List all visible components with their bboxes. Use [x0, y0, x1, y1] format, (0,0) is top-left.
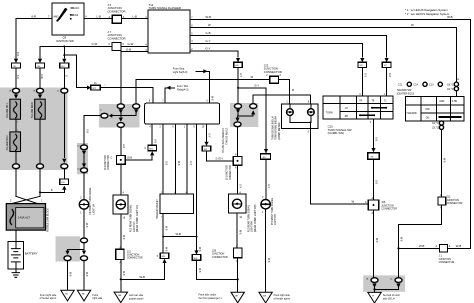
connector A turn RH in [235, 104, 242, 109]
bus wire G-B flasher pin5 [190, 35, 387, 57]
wire front RH ground [265, 209, 267, 292]
svg-text:W-B: W-B [267, 258, 269, 263]
svg-text:BP3: BP3 [162, 256, 165, 258]
from TAIL relay feed [162, 85, 189, 103]
fusible link block 140A ALT [6, 204, 49, 232]
svg-text:2: 2 [17, 122, 18, 124]
svg-text:W-B: W-B [419, 244, 425, 248]
svg-text:G-Y: G-Y [206, 47, 211, 51]
arrow 1G upper out [82, 151, 86, 155]
connector E1 turn LH in [117, 104, 124, 109]
svg-text:(TURN SIGNAL): (TURN SIGNAL) [224, 128, 227, 145]
svg-text:G-Y: G-Y [239, 184, 241, 189]
svg-text:4: 4 [185, 192, 186, 194]
connector E4 to front LH [101, 113, 108, 118]
svg-text:W-B: W-B [85, 272, 87, 277]
svg-text:(COMB. METER): (COMB. METER) [279, 122, 281, 140]
svg-text:BATTERY: BATTERY [25, 252, 38, 256]
svg-text:of fender apron: of fender apron [40, 297, 57, 300]
arrow E2 out [134, 109, 138, 113]
svg-text:CONNECTOR: CONNECTOR [447, 202, 463, 205]
ground triangle BR front passenger side [199, 292, 245, 303]
connector 1B cowl ground [366, 278, 378, 283]
svg-text:COMBINATION METER: COMBINATION METER [221, 128, 224, 153]
svg-text:Light Sw(6-3): Light Sw(6-3) [173, 71, 188, 74]
svg-text:W-B: W-B [456, 244, 462, 248]
svg-text:J5 JUNCTION: J5 JUNCTION [227, 165, 229, 180]
svg-text:1D6: 1D6 [61, 182, 64, 184]
svg-text:ACC: ACC [74, 7, 79, 10]
wire meter pin4 via BP3 to J4 [125, 124, 152, 160]
connector BP3 rear [121, 253, 169, 279]
svg-text:GND: GND [439, 101, 444, 103]
wire to ground triangles front [68, 261, 85, 291]
wire E3 down to J4 [120, 128, 122, 156]
arrow into B [251, 110, 255, 114]
svg-text:G-W: G-W [128, 42, 134, 46]
svg-text:W: W [411, 23, 414, 27]
svg-text:B-R: B-R [16, 52, 18, 56]
svg-text:7: 7 [161, 217, 162, 219]
wire W-B bus to J1 [447, 247, 470, 249]
connector BP2 [91, 85, 101, 90]
connector 1D cowl ground [390, 278, 402, 283]
svg-text:W-B: W-B [176, 232, 182, 236]
svg-text:W: W [251, 75, 254, 79]
svg-text:LIGHT LH: LIGHT LH [93, 204, 95, 215]
arrow into fuse col1 [15, 93, 17, 95]
svg-text:R11 REAR TURN SIGNAL: R11 REAR TURN SIGNAL [247, 204, 250, 232]
svg-text:BC3: BC3 [204, 149, 208, 151]
gray box ground cluster cowl side [363, 275, 405, 291]
meter pin wires to trailer socket [163, 124, 187, 194]
connector 1J fuse block top col3 [57, 88, 68, 93]
svg-text:W-B: W-B [122, 235, 124, 240]
arrow A out [236, 109, 240, 113]
svg-text:LIGHT RH: LIGHT RH [275, 214, 277, 225]
svg-text:W-B: W-B [211, 96, 213, 101]
connector arrow col1 [15, 58, 17, 60]
svg-text:S-HE: S-HE [452, 101, 458, 103]
svg-text:22( *2): 22( *2) [432, 128, 439, 130]
wire front LH ground [83, 209, 85, 246]
svg-text:G-B: G-B [388, 73, 390, 78]
svg-text:G-B: G-B [153, 139, 155, 144]
svg-text:L-B: L-B [97, 14, 101, 18]
wire J11 down to ground node [399, 205, 442, 278]
wire G-W fuse to flasher through J7 [40, 46, 148, 57]
svg-text:W-B: W-B [198, 268, 200, 273]
ground battery [12, 269, 20, 277]
gray patch junction cluster LH [99, 104, 140, 128]
junction connector J11 [438, 194, 463, 209]
svg-text:50A AM2 MAIN: 50A AM2 MAIN [31, 102, 34, 118]
svg-text:W-B: W-B [375, 238, 377, 243]
connector E3 to rear LH [117, 123, 124, 128]
svg-text:10( *1): 10( *1) [432, 123, 439, 125]
svg-text:CONNECTOR: CONNECTOR [230, 165, 232, 180]
svg-text:G-Y: G-Y [254, 84, 259, 88]
svg-text:FUSIBLE LINK BLOCK: FUSIBLE LINK BLOCK [48, 208, 50, 232]
rear turn signal light LH R10 [113, 164, 139, 232]
junction connector J4 [105, 155, 129, 170]
svg-text:BP2: BP2 [93, 88, 96, 90]
connector BO3 [192, 250, 238, 279]
svg-text:W-B: W-B [206, 15, 212, 19]
svg-text:G-W: G-W [40, 74, 42, 80]
bus wire W-B flasher pin7 [190, 19, 470, 248]
svg-text:G-Y: G-Y [219, 159, 224, 161]
wire rear RH ground [236, 213, 239, 292]
front turn signal light LH [79, 173, 95, 215]
wires to ALT block with crossover [16, 169, 40, 197]
svg-text:C13: C13 [429, 83, 434, 86]
junction connector J28 [212, 245, 242, 263]
wire G-B flasher pin3 to connector E1 [121, 52, 148, 104]
svg-text:G-B: G-B [122, 144, 124, 149]
svg-text:TR: TR [359, 100, 362, 102]
svg-text:G-Y: G-Y [206, 39, 211, 43]
svg-text:TB: TB [371, 100, 374, 102]
gray patch junction cluster RH [230, 103, 258, 127]
wire cluster LH bus [112, 113, 136, 118]
bus wire G-Y flasher pin2 [190, 51, 238, 57]
arrow into 1G lower [82, 163, 86, 167]
wire AM2 feed from connector column 1 [16, 19, 52, 58]
trailer ground wire [162, 214, 164, 254]
svg-text:18( *1): 18( *1) [447, 84, 454, 86]
wire BP2 line to combination meter [76, 88, 153, 104]
svg-text:IG2: IG2 [74, 14, 79, 17]
svg-text:W-B: W-B [140, 275, 146, 279]
wire W line to J23 and indicator [136, 79, 289, 103]
svg-text:W-B: W-B [239, 230, 241, 235]
arrow into connector D5 [264, 149, 268, 153]
hazard bottom pins to J11 [432, 121, 445, 197]
junction connector J1 [436, 245, 455, 265]
svg-text:BP3: BP3 [149, 149, 152, 151]
svg-text:CONNECTOR: CONNECTOR [381, 208, 397, 211]
arrow into E3 [119, 118, 123, 122]
connector ground ED [64, 256, 71, 261]
ignition switch C8 [48, 3, 87, 43]
wire col3 through fuse block [63, 93, 65, 157]
svg-text:F4 FRONT TURN SIGNAL: F4 FRONT TURN SIGNAL [89, 187, 92, 215]
connector box col1 [12, 63, 21, 68]
svg-text:LIGHT RH: LIGHT RH [252, 221, 254, 232]
svg-text:W-B: W-B [165, 247, 167, 252]
svg-text:W-B: W-B [177, 161, 179, 166]
svg-text:1: 1 [17, 130, 18, 132]
wire rear LH ground [120, 214, 122, 292]
wire between 1G connectors [83, 155, 85, 163]
wire branch G-W to meter feed [64, 46, 76, 87]
svg-text:G-B: G-B [375, 137, 377, 142]
wire ground split front [68, 243, 85, 250]
fuse 50A AM2 MAIN [31, 99, 45, 119]
svg-text:G-B: G-B [128, 158, 133, 160]
svg-text:TURN: TURN [326, 111, 333, 114]
svg-text:1K7: 1K7 [384, 65, 387, 67]
connector arrow col2 [39, 58, 41, 60]
svg-text:F5 FRONT TURN SIGNAL: F5 FRONT TURN SIGNAL [271, 197, 274, 225]
connector 1G upper front LH [81, 145, 88, 150]
arrow into C [235, 118, 239, 122]
junction connector J23 [264, 64, 282, 84]
trailer socket [156, 192, 194, 219]
svg-text:6-R: 6-R [16, 75, 18, 79]
turn signal flasher T12 [145, 3, 193, 53]
connector E2 [133, 104, 140, 109]
svg-text:* 2 : w/o LEXUS Navigation Sys: * 2 : w/o LEXUS Navigation System [405, 12, 450, 16]
ground triangle ED front right fender [40, 290, 75, 301]
connector B to indicator RH [250, 104, 257, 109]
svg-text:6-R: 6-R [32, 15, 37, 19]
connector fuse block bottom col1 [13, 164, 20, 169]
svg-text:4D5: 4D5 [263, 157, 266, 159]
ground triangle EA front right fender apron [259, 292, 291, 303]
svg-text:[CENTER ECU]: [CENTER ECU] [397, 93, 415, 96]
svg-text:C12: C12 [398, 83, 403, 86]
svg-text:1K2: 1K2 [360, 65, 363, 67]
svg-text:30A AM2 NO.1: 30A AM2 NO.1 [6, 102, 9, 118]
wire L-B ignition to flasher through J6 [84, 18, 148, 20]
junction connector J5 [219, 154, 242, 180]
connector arrow col3 [62, 59, 66, 63]
arrow E1 out [119, 109, 123, 113]
junction connector J25 [365, 197, 397, 215]
svg-text:CONNECTOR: CONNECTOR [212, 256, 228, 259]
arrow into ground connector ED [65, 251, 69, 255]
bus wire G-Y flasher pin4 [190, 43, 362, 57]
svg-text:CONNECTOR: CONNECTOR [127, 257, 143, 260]
svg-text:30A AM2 NO.2: 30A AM2 NO.2 [6, 135, 9, 151]
bus wire W flasher pin8 [190, 27, 456, 82]
arrow into ground connector EA [82, 251, 86, 255]
svg-text:G-B: G-B [126, 47, 131, 51]
svg-text:IGNITION SW: IGNITION SW [56, 39, 74, 43]
svg-text:TRAILER SOCKET: TRAILER SOCKET [156, 199, 159, 219]
svg-text:CONNECTOR: CONNECTOR [108, 9, 126, 13]
svg-text:W: W [208, 23, 211, 27]
svg-text:(COMB. SW): (COMB. SW) [328, 131, 344, 135]
wire E2 feed [135, 79, 137, 103]
combination meter block [145, 103, 220, 124]
wire E4 to front LH column [84, 116, 100, 145]
junction connector J6 [108, 3, 126, 23]
arrow out 1B [372, 284, 376, 288]
svg-text:quarter panel: quarter panel [129, 297, 144, 300]
meter pin5 column [196, 124, 198, 250]
connector D5 front RH [261, 154, 271, 159]
wire cowl ground join [375, 288, 399, 293]
arrow into bottom connector col3 [62, 159, 66, 163]
wire ALT to battery [15, 230, 17, 241]
svg-text:G-B: G-B [375, 180, 377, 185]
ground triangle IF cowl side [368, 292, 400, 303]
svg-text:W-B: W-B [69, 272, 71, 277]
connector box col3 [60, 63, 69, 68]
svg-text:Relay(4-2): Relay(4-2) [177, 88, 189, 91]
turn signal indicator combination meter [271, 102, 317, 140]
svg-text:1: 1 [174, 192, 175, 194]
wire cluster RH bus [238, 114, 254, 118]
svg-text:1J: 1J [57, 91, 59, 93]
turn signal switch C10 table [323, 94, 393, 135]
svg-text:G-Y: G-Y [189, 161, 191, 166]
svg-text:7: 7 [161, 192, 162, 194]
svg-text:AM2: AM2 [54, 15, 60, 18]
G-Y column connector 4H3 [236, 58, 240, 62]
svg-text:G-B: G-B [85, 129, 87, 134]
fuse 30A AM2 NO.2 [6, 132, 20, 152]
svg-text:11: 11 [100, 110, 102, 112]
connector C to rear RH [234, 122, 241, 127]
svg-text:R10 REAR TURN SIGNAL: R10 REAR TURN SIGNAL [130, 204, 133, 232]
svg-text:right side: right side [92, 297, 103, 300]
svg-text:RH: RH [345, 116, 349, 118]
rear turn signal light RH R11 [228, 165, 256, 232]
svg-text:(REAR COMB. LIGHT LH): (REAR COMB. LIGHT LH) [136, 205, 139, 232]
meter pin10 via BC3 to J5 [207, 124, 234, 161]
svg-text:BO3: BO3 [194, 258, 198, 260]
svg-text:G-B: G-B [164, 161, 166, 166]
wire branch down to connector 3 [63, 55, 65, 58]
svg-text:side JB LH: side JB LH [383, 298, 395, 301]
svg-text:(REAR COMB. LIGHT RH): (REAR COMB. LIGHT RH) [254, 204, 257, 232]
wire switch output via IH3 to J25 [373, 119, 375, 148]
svg-text:G-Y: G-Y [208, 134, 210, 139]
gray block fuse area left [0, 88, 68, 171]
svg-text:CONNECTOR: CONNECTOR [108, 155, 110, 170]
svg-text:CONNECTOR: CONNECTOR [439, 261, 455, 264]
battery [8, 241, 38, 269]
svg-text:CONNECTOR: CONNECTOR [108, 36, 126, 40]
junction connector J22 [116, 246, 143, 264]
svg-text:140A ALT: 140A ALT [18, 216, 30, 220]
wire indicator to J25 [310, 122, 369, 204]
svg-text:CONNECTOR: CONNECTOR [264, 70, 282, 74]
svg-text:W-B: W-B [165, 226, 167, 231]
hazard switch center ECU [397, 82, 465, 121]
connector D6 branch [40, 169, 69, 192]
junction connector J7 [108, 30, 126, 50]
svg-text:*: * [105, 85, 106, 87]
svg-text:the front passenger' s: the front passenger' s [199, 297, 223, 300]
arrow into E4 [109, 114, 112, 118]
svg-text:W-B: W-B [443, 158, 445, 163]
arrow into fuse col2 [39, 93, 41, 95]
wire connector B to indicator pin 2 [253, 95, 310, 104]
G-Y branch to front RH and indicator [238, 88, 266, 154]
gray box ground cluster front [56, 236, 81, 261]
wires connector row to fuse block connectors [16, 68, 64, 88]
hazard top pins from W bus [447, 79, 459, 97]
svg-text:4H3: 4H3 [235, 65, 238, 67]
svg-text:G-Y: G-Y [239, 73, 241, 78]
svg-text:W: W [352, 200, 355, 204]
from stop light switch feed [173, 68, 213, 104]
svg-text:LIGHT LH: LIGHT LH [134, 221, 136, 232]
svg-text:OFF: OFF [425, 109, 430, 111]
svg-text:TURN SIGNAL IND LH: TURN SIGNAL IND LH [271, 116, 274, 140]
svg-text:G-Y: G-Y [267, 184, 269, 189]
svg-text:W-B: W-B [85, 223, 87, 228]
bridge wire trailer to pin5 column [163, 236, 196, 238]
svg-text:ON: ON [426, 117, 430, 119]
svg-text:L-B: L-B [133, 14, 137, 18]
connector 1E fuse block top col1 [9, 88, 20, 93]
connector arrows into turn switch columns [360, 58, 364, 62]
svg-text:W-B: W-B [122, 271, 124, 276]
junction cowl ground [373, 288, 375, 290]
connector box col2 [36, 63, 45, 68]
ground triangle EA front right [77, 290, 103, 301]
gray strip front LH connector pair [77, 143, 88, 174]
svg-text:HAZARD: HAZARD [407, 112, 417, 115]
svg-text:G-Y: G-Y [364, 73, 366, 78]
arrow out 1D [396, 284, 400, 288]
svg-text:of fender apron: of fender apron [274, 297, 291, 300]
svg-text:C14: C14 [414, 83, 419, 86]
connector fuse block bottom col2 [37, 164, 44, 169]
wire patch C down to J5 [237, 127, 239, 157]
fuse 30A AM2 NO.1 [6, 99, 20, 119]
svg-text:16( *2): 16( *2) [447, 89, 454, 91]
svg-text:LH: LH [345, 108, 348, 110]
svg-text:TURN SIGNAL IND RH: TURN SIGNAL IND RH [275, 116, 278, 140]
svg-text:G-B: G-B [206, 31, 211, 35]
connector 1G lower front LH [81, 168, 88, 173]
wire J25 to cowl ground [373, 210, 375, 278]
svg-text:BM: BM [118, 295, 121, 297]
fuse link wire between [15, 119, 17, 132]
svg-text:W-B: W-B [400, 237, 402, 242]
svg-text:J4 JUNCTION: J4 JUNCTION [105, 155, 107, 170]
connector fuse block bottom col3 [61, 164, 68, 169]
connector 1F fuse block top col2 [33, 88, 44, 93]
svg-text:IH3: IH3 [371, 157, 374, 159]
ground triangle BM left rear quarter panel [114, 292, 144, 303]
svg-text:G-W: G-W [92, 42, 98, 46]
front turn signal light RH [261, 159, 277, 225]
connector ground EA [81, 256, 88, 261]
